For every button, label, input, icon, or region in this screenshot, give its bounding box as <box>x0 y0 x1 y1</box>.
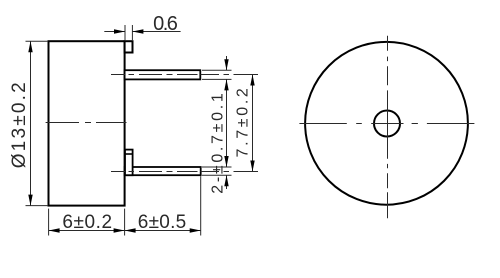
svg-text:0.6: 0.6 <box>153 13 178 35</box>
dimension 7.7: top arrow <box>250 75 254 86</box>
dimension D13: dim line <box>30 41 32 205</box>
dimension 7.7: bottom arrow <box>250 161 254 172</box>
pin 2 center line <box>111 171 258 173</box>
dimension 0.6: extension line right <box>131 25 133 40</box>
front view outer circle <box>305 42 468 205</box>
dimension 6+-0.5: left arrow <box>125 228 136 232</box>
dimension 2-D0.7: arrow down to pin2 top <box>224 156 228 167</box>
dimension 0.6: right arrow <box>132 29 143 33</box>
dimension 2-D0.7: dim line segments <box>226 56 228 189</box>
front view horizontal center line <box>299 123 474 125</box>
svg-text:Ø13±0.2: Ø13±0.2 <box>9 82 30 168</box>
front view vertical center line <box>387 36 389 218</box>
pin 1 center line <box>111 74 258 76</box>
dimension 6+-0.2 / 6+-0.5: extension line left <box>48 209 50 236</box>
dimension D13: bottom arrow <box>28 195 32 206</box>
bottom tab inner line <box>125 153 133 155</box>
dimension D13: extension bottom <box>26 205 49 207</box>
dimension 7.7: dim line <box>252 75 254 172</box>
buzzer body side view outline <box>49 41 125 205</box>
pin 1 (top lead) <box>125 70 201 79</box>
dimension 0.6: dim line left segment <box>104 31 125 33</box>
dimension 0.6: dim line right segment <box>132 31 180 33</box>
dimension 2-D0.7: pin2 extension lines <box>202 167 232 175</box>
front view sound hole circle <box>374 111 400 137</box>
dimension 0.6: extension line left <box>124 25 126 41</box>
svg-text:6±0.5: 6±0.5 <box>138 212 187 233</box>
dimension 0.6: left arrow <box>114 29 125 33</box>
dimension 2-D0.7: pin1 extension lines <box>202 70 232 79</box>
dimension 6+-0.2: right arrow <box>114 228 125 232</box>
svg-text:2-±0.7±0.1: 2-±0.7±0.1 <box>209 93 226 194</box>
body horizontal center line <box>46 122 127 124</box>
svg-text:6±0.2: 6±0.2 <box>62 212 112 233</box>
dimension D13: top arrow <box>28 41 32 52</box>
dimension bottom: dim line <box>49 230 201 232</box>
dimension 2-D0.7: arrow up to pin2 bottom <box>224 175 228 186</box>
extension line middle <box>124 209 126 236</box>
dimension 6+-0.5: right arrow <box>190 228 201 232</box>
dimension D13: extension top <box>26 40 49 42</box>
dimension 2-D0.7: arrow up to pin1 bottom <box>224 79 228 90</box>
dimension 6+-0.2: left arrow <box>49 228 60 232</box>
bottom tab / pin boss <box>125 150 133 176</box>
extension line right <box>200 176 202 235</box>
pin 2 (bottom lead) <box>125 167 201 175</box>
top mounting tab (0.6 step) <box>125 41 133 52</box>
dimension 2-D0.7: arrow down to pin1 top <box>224 59 228 70</box>
